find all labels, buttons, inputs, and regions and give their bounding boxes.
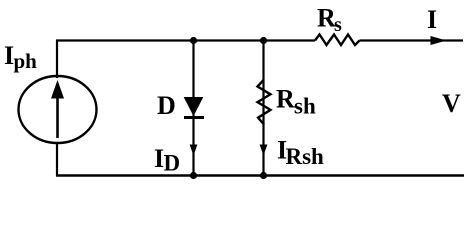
- wire top (right segment after Rs): [360, 39, 464, 41]
- svg-text:ph: ph: [14, 49, 38, 73]
- svg-text:I: I: [427, 5, 437, 34]
- diode D: [184, 98, 204, 118]
- current arrow ID: [190, 145, 198, 156]
- wire diode branch: [192, 41, 194, 176]
- wire top (left segment, node A to Rs): [56, 39, 315, 41]
- resistor Rs: [315, 35, 360, 46]
- wire left: [56, 41, 58, 79]
- current arrow IRsh: [260, 145, 268, 156]
- svg-text:V: V: [442, 89, 461, 118]
- node bottom shunt junction: [260, 172, 267, 179]
- wire bottom: [56, 174, 464, 176]
- resistor Rsh: [258, 80, 271, 125]
- current source Iph: [19, 76, 97, 143]
- node top diode junction: [190, 37, 197, 44]
- output current arrow I: [431, 37, 445, 45]
- svg-text:D: D: [164, 151, 181, 176]
- node top shunt junction: [260, 37, 267, 44]
- svg-text:D: D: [157, 91, 176, 120]
- wire shunt branch: [262, 41, 264, 176]
- svg-text:Rsh: Rsh: [286, 144, 325, 169]
- svg-text:sh: sh: [294, 94, 316, 119]
- svg-text:R: R: [276, 85, 295, 114]
- node bottom diode junction: [190, 172, 197, 179]
- svg-text:s: s: [334, 14, 342, 36]
